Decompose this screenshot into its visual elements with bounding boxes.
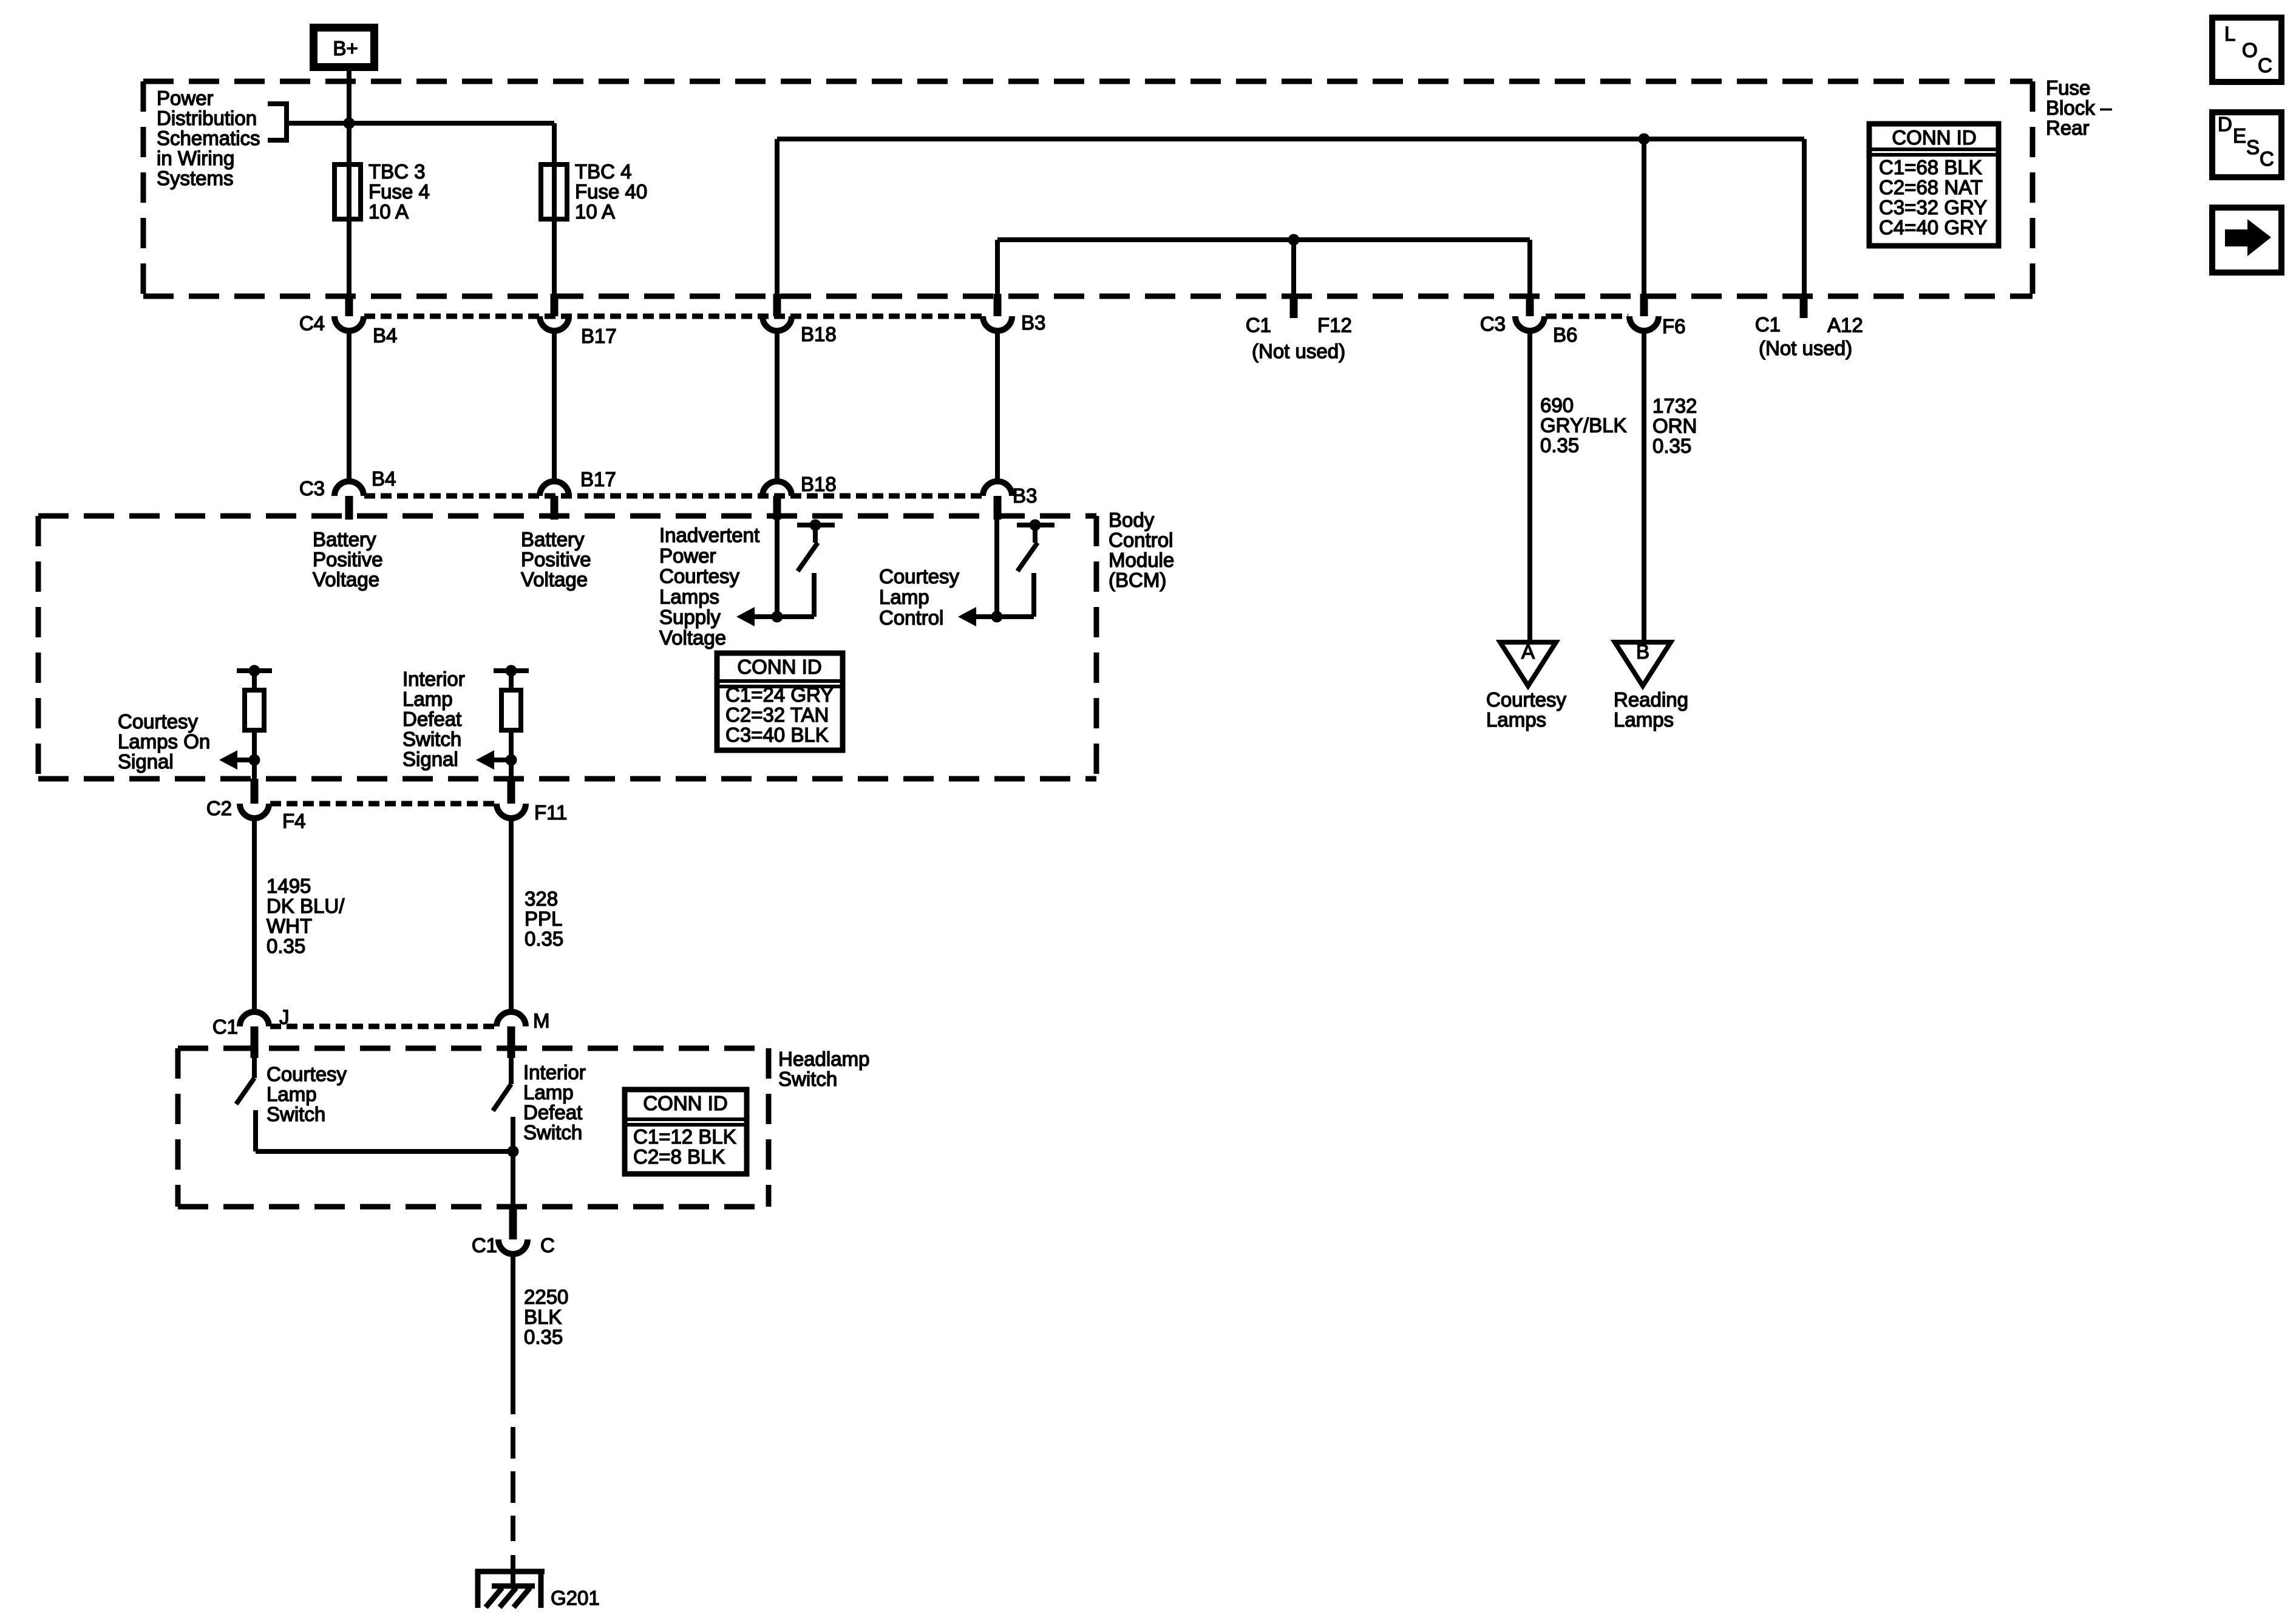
svg-text:Switch: Switch: [267, 1103, 325, 1125]
svg-text:C2=68 NAT: C2=68 NAT: [1879, 176, 1983, 198]
svg-text:G201: G201: [551, 1587, 600, 1609]
svg-text:Switch: Switch: [523, 1121, 582, 1144]
svg-text:TBC 4: TBC 4: [575, 160, 632, 183]
svg-text:F4: F4: [282, 810, 306, 832]
svg-text:B: B: [1636, 640, 1649, 663]
svg-text:Signal: Signal: [402, 748, 458, 770]
svg-text:Defeat: Defeat: [402, 708, 461, 730]
svg-text:CONN ID: CONN ID: [643, 1092, 727, 1114]
svg-text:C: C: [2258, 54, 2272, 76]
svg-text:C1: C1: [212, 1015, 238, 1038]
svg-text:E: E: [2233, 124, 2246, 147]
svg-text:(BCM): (BCM): [1109, 569, 1166, 591]
svg-text:C: C: [2260, 147, 2274, 170]
svg-text:Voltage: Voltage: [313, 568, 379, 591]
svg-text:GRY/BLK: GRY/BLK: [1540, 414, 1626, 436]
svg-text:C3: C3: [1480, 313, 1506, 335]
svg-text:C: C: [540, 1234, 555, 1256]
svg-text:Positive: Positive: [313, 548, 383, 571]
svg-text:0.35: 0.35: [267, 935, 305, 957]
svg-text:B+: B+: [333, 37, 358, 59]
svg-text:C3=32 GRY: C3=32 GRY: [1879, 196, 1987, 219]
svg-text:O: O: [2242, 39, 2258, 61]
svg-text:Lamp: Lamp: [879, 586, 929, 608]
svg-text:0.35: 0.35: [1652, 435, 1691, 457]
svg-text:C2: C2: [206, 797, 232, 819]
svg-text:Voltage: Voltage: [659, 626, 726, 649]
svg-text:Lamps On: Lamps On: [118, 730, 210, 753]
svg-text:Supply: Supply: [659, 606, 721, 628]
svg-text:B17: B17: [581, 325, 617, 347]
svg-text:B3: B3: [1013, 484, 1037, 507]
svg-text:C1: C1: [1755, 313, 1781, 336]
svg-text:Lamps: Lamps: [659, 585, 719, 608]
svg-text:CONN ID: CONN ID: [737, 656, 821, 678]
svg-text:10 A: 10 A: [369, 200, 409, 223]
svg-text:CONN ID: CONN ID: [1892, 126, 1976, 149]
svg-text:Schematics: Schematics: [157, 127, 260, 149]
svg-text:Courtesy: Courtesy: [267, 1063, 347, 1085]
svg-text:Lamp: Lamp: [267, 1083, 317, 1105]
svg-text:Fuse 40: Fuse 40: [575, 180, 647, 203]
svg-text:C4: C4: [299, 312, 325, 334]
svg-text:DK BLU/: DK BLU/: [267, 895, 345, 917]
svg-text:Rear: Rear: [2046, 117, 2090, 139]
svg-text:L: L: [2224, 22, 2235, 45]
svg-text:C4=40 GRY: C4=40 GRY: [1879, 216, 1987, 239]
svg-text:C2=32 TAN: C2=32 TAN: [725, 703, 829, 726]
svg-text:Courtesy: Courtesy: [879, 565, 960, 588]
svg-text:2250: 2250: [524, 1286, 568, 1308]
svg-text:S: S: [2246, 136, 2260, 158]
svg-text:Distribution: Distribution: [157, 107, 257, 129]
svg-text:Body: Body: [1109, 509, 1155, 531]
svg-text:1495: 1495: [267, 875, 311, 897]
svg-text:Control: Control: [879, 606, 943, 629]
svg-text:Lamps: Lamps: [1614, 708, 1674, 731]
svg-text:0.35: 0.35: [525, 927, 563, 950]
svg-text:C1: C1: [1246, 314, 1271, 336]
svg-text:0.35: 0.35: [524, 1326, 563, 1348]
svg-text:C3: C3: [299, 477, 325, 500]
svg-text:A12: A12: [1827, 314, 1863, 336]
svg-text:0.35: 0.35: [1540, 434, 1579, 456]
svg-text:Control: Control: [1109, 529, 1173, 551]
svg-text:B18: B18: [801, 323, 837, 345]
svg-text:Lamp: Lamp: [402, 688, 453, 710]
svg-text:Switch: Switch: [402, 728, 461, 750]
svg-text:Voltage: Voltage: [521, 568, 588, 591]
svg-text:Power: Power: [157, 87, 214, 109]
svg-text:Block –: Block –: [2046, 97, 2112, 119]
svg-text:C1=12 BLK: C1=12 BLK: [633, 1125, 736, 1148]
svg-text:M: M: [533, 1009, 550, 1032]
svg-text:(Not used): (Not used): [1759, 337, 1852, 359]
svg-text:Fuse 4: Fuse 4: [369, 180, 430, 203]
svg-text:C1=68 BLK: C1=68 BLK: [1879, 156, 1982, 178]
svg-text:Battery: Battery: [313, 528, 376, 551]
svg-text:F6: F6: [1662, 315, 1686, 337]
svg-text:TBC 3: TBC 3: [369, 160, 426, 183]
svg-text:Positive: Positive: [521, 548, 591, 571]
svg-text:Signal: Signal: [118, 750, 174, 773]
svg-text:328: 328: [525, 887, 558, 910]
svg-text:Headlamp: Headlamp: [778, 1048, 869, 1070]
svg-text:C1: C1: [472, 1234, 497, 1256]
svg-text:Fuse: Fuse: [2046, 76, 2090, 99]
svg-text:Courtesy: Courtesy: [659, 565, 740, 588]
svg-text:Courtesy: Courtesy: [1486, 688, 1567, 711]
svg-text:Interior: Interior: [523, 1061, 586, 1083]
svg-text:Lamps: Lamps: [1486, 708, 1546, 731]
svg-text:B4: B4: [372, 467, 396, 490]
svg-text:J: J: [279, 1006, 290, 1028]
svg-text:Interior: Interior: [402, 668, 465, 690]
svg-text:C2=8 BLK: C2=8 BLK: [633, 1145, 725, 1168]
svg-text:B18: B18: [801, 473, 837, 495]
svg-text:A: A: [1521, 640, 1535, 663]
svg-text:BLK: BLK: [524, 1306, 562, 1328]
svg-text:Defeat: Defeat: [523, 1101, 582, 1124]
svg-text:B3: B3: [1021, 311, 1045, 334]
svg-text:Switch: Switch: [778, 1068, 837, 1090]
svg-text:B4: B4: [373, 324, 397, 347]
svg-text:PPL: PPL: [525, 907, 562, 930]
svg-text:ORN: ORN: [1652, 415, 1697, 437]
svg-text:Systems: Systems: [157, 167, 234, 189]
svg-text:(Not used): (Not used): [1252, 340, 1345, 362]
svg-text:F11: F11: [534, 801, 567, 824]
svg-text:10 A: 10 A: [575, 200, 615, 223]
svg-text:C3=40 BLK: C3=40 BLK: [725, 724, 829, 746]
svg-text:B6: B6: [1553, 324, 1577, 346]
svg-text:F12: F12: [1317, 314, 1352, 336]
svg-text:690: 690: [1540, 394, 1574, 416]
svg-text:B17: B17: [580, 468, 616, 490]
svg-text:Battery: Battery: [521, 528, 585, 551]
svg-text:Courtesy: Courtesy: [118, 710, 199, 733]
svg-text:in Wiring: in Wiring: [157, 147, 234, 169]
svg-text:D: D: [2218, 113, 2232, 135]
svg-text:Inadvertent: Inadvertent: [659, 524, 759, 546]
svg-text:C1=24 GRY: C1=24 GRY: [725, 683, 834, 706]
svg-text:Lamp: Lamp: [523, 1081, 574, 1103]
svg-text:Module: Module: [1109, 549, 1174, 571]
svg-text:1732: 1732: [1652, 395, 1697, 417]
svg-text:Reading: Reading: [1614, 688, 1688, 711]
svg-text:WHT: WHT: [267, 915, 312, 937]
svg-text:Power: Power: [659, 544, 716, 567]
